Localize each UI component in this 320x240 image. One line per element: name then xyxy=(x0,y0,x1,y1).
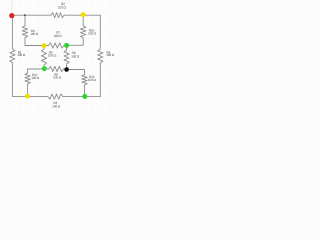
node yellow bottom-left xyxy=(25,94,30,99)
node green low xyxy=(42,66,47,71)
wire: R8 bottom lead to black node xyxy=(66,64,68,70)
svg-text:100 Ω: 100 Ω xyxy=(53,76,62,80)
svg-text:100 Ω: 100 Ω xyxy=(31,76,40,80)
wire: left edge upper xyxy=(11,15,13,49)
wire: low row corner to lower green node xyxy=(28,68,44,70)
label R2 xyxy=(58,2,67,9)
wire: R11 top lead xyxy=(27,69,29,73)
clipped wire stub above red node xyxy=(11,0,13,13)
node black xyxy=(64,67,69,72)
node green bottom-right xyxy=(82,94,87,99)
label R8 xyxy=(71,51,80,58)
label R3 xyxy=(106,50,115,57)
junction dot xyxy=(24,14,26,16)
wire: R12 bottom lead to bottom green node xyxy=(84,85,86,97)
label R9 xyxy=(30,29,39,36)
wire: top right segment xyxy=(64,14,100,16)
resistor R5 xyxy=(41,49,46,65)
label R10 xyxy=(88,29,97,36)
wire: R5 bottom lead xyxy=(43,65,45,68)
grid crosses xyxy=(1,1,112,112)
resistor R3 xyxy=(98,49,103,63)
wire: mid green node to R10 corner xyxy=(67,38,84,45)
wire: bottom left segment xyxy=(12,96,47,98)
wire: R6 to black node xyxy=(64,68,67,70)
node red xyxy=(9,13,14,18)
svg-text:100 Ω: 100 Ω xyxy=(58,5,67,9)
label R4 xyxy=(52,101,61,108)
node yellow top xyxy=(81,12,86,17)
resistor R4 xyxy=(48,94,63,99)
wire: right edge lower xyxy=(99,63,101,97)
node yellow mid xyxy=(42,43,47,48)
wire: R8 top lead xyxy=(66,45,68,50)
wire: mid row yellow node to R7 xyxy=(44,45,49,47)
svg-text:100 Ω: 100 Ω xyxy=(52,104,61,108)
svg-text:100 Ω: 100 Ω xyxy=(88,78,97,82)
label R7 xyxy=(54,31,63,39)
svg-text:100 Ω: 100 Ω xyxy=(30,32,39,36)
wire: R7 to mid green node xyxy=(64,45,67,47)
wire: black node to R12 corner xyxy=(67,70,85,75)
wire: R9 branch top lead xyxy=(24,15,26,26)
svg-text:100 Ω: 100 Ω xyxy=(88,32,97,36)
resistor R6 xyxy=(49,66,64,71)
wire: R5 top lead xyxy=(43,46,45,49)
svg-text:100 Ω: 100 Ω xyxy=(54,34,63,38)
label R1 xyxy=(17,50,26,57)
wire: R10 top lead to top yellow node xyxy=(82,15,84,26)
wire: left edge lower xyxy=(11,63,13,97)
canvas background xyxy=(0,0,120,118)
node green mid xyxy=(64,43,69,48)
svg-text:100 Ω: 100 Ω xyxy=(17,53,26,57)
label R12 xyxy=(88,75,97,82)
resistor R11 xyxy=(25,73,30,84)
label R6 xyxy=(53,73,62,80)
resistor R7 xyxy=(49,43,64,48)
grid lines xyxy=(0,0,120,118)
wire: top left segment xyxy=(12,14,51,16)
label R11 xyxy=(31,73,40,80)
svg-text:100 Ω: 100 Ω xyxy=(48,54,57,58)
resistor R2 xyxy=(51,13,64,18)
label R5 xyxy=(48,51,57,58)
wire: lower green node to R6 xyxy=(44,68,49,70)
wire: right edge upper xyxy=(99,15,101,49)
resistor R8 xyxy=(64,50,69,64)
svg-text:100 Ω: 100 Ω xyxy=(71,54,80,58)
resistor R9 xyxy=(22,26,27,38)
resistor R12 xyxy=(82,75,87,85)
wire: bottom right segment xyxy=(63,96,100,98)
resistor R10 xyxy=(81,26,86,38)
wire: R9 bottom lead and run to mid yellow node xyxy=(25,38,44,46)
svg-text:100 Ω: 100 Ω xyxy=(106,53,115,57)
wire: R11 bottom lead to bottom yellow node xyxy=(27,84,29,96)
resistor R1 xyxy=(10,49,15,63)
